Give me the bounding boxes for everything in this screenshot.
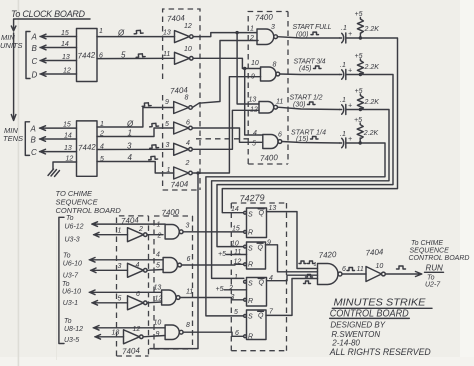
junction C2 R2 [359, 73, 362, 76]
svg-text:7400: 7400 [260, 153, 279, 163]
svg-text:+: + [348, 31, 352, 38]
wire U8c Q to 7420 in3 [267, 275, 318, 281]
inverter U5a [174, 102, 189, 114]
svg-text:6: 6 [342, 266, 346, 273]
svg-text:9: 9 [156, 331, 160, 338]
svg-text:1: 1 [118, 228, 122, 235]
svg-text:11: 11 [163, 51, 170, 58]
svg-text:U6-10: U6-10 [62, 289, 81, 296]
nand U3a [257, 29, 274, 45]
svg-text:RUN: RUN [426, 264, 444, 273]
wire out row1A [92, 222, 165, 227]
svg-text:74279: 74279 [239, 192, 265, 203]
svg-text:13: 13 [112, 330, 120, 337]
svg-text:S: S [248, 212, 253, 219]
svg-text:S: S [248, 281, 253, 288]
wire U7a out to latch1 R [183, 231, 244, 233]
wire U3d out to C4 [282, 142, 340, 144]
inverter U5d [174, 167, 189, 179]
svg-text:(30): (30) [293, 101, 305, 108]
svg-text:3: 3 [231, 294, 235, 301]
svg-text:4: 4 [128, 153, 133, 162]
decoder U4 7442 [77, 121, 98, 176]
inverter U2b [175, 52, 190, 64]
svg-text:START FULL: START FULL [293, 24, 332, 31]
inverter U5c [174, 143, 189, 155]
svg-text:U3-1: U3-1 [63, 300, 78, 307]
svg-text:7404: 7404 [122, 346, 141, 356]
svg-text:6: 6 [186, 120, 190, 127]
svg-text:ALL RIGHTS RESERVED: ALL RIGHTS RESERVED [329, 347, 431, 358]
svg-text:A: A [31, 33, 37, 42]
svg-text:14: 14 [61, 41, 69, 48]
svg-text:10: 10 [251, 60, 259, 67]
wire input C U4 [40, 149, 77, 154]
wire out row2A [89, 258, 163, 263]
inverter U10 [366, 267, 382, 282]
wire start-3/4 loop to latch S2 [217, 75, 393, 247]
wire U2b out to N2 pin10 [193, 58, 261, 68]
nand U7b [163, 258, 177, 273]
svg-text:5: 5 [165, 121, 169, 128]
svg-text:To: To [62, 281, 70, 288]
svg-text:R: R [248, 262, 253, 269]
wire units-0bar down to N3 pin13 [237, 33, 259, 104]
svg-text:13: 13 [249, 97, 257, 104]
wire input A U4 [40, 126, 77, 131]
svg-text:7420: 7420 [318, 250, 337, 260]
svg-text:2: 2 [228, 285, 233, 292]
svg-text:To: To [63, 253, 71, 260]
wire U7b out to latch2 R [182, 263, 244, 266]
svg-text:.1: .1 [341, 25, 347, 32]
wire U1 output 5 [97, 57, 175, 59]
wire U7c out to latch3 R [180, 298, 244, 300]
svg-text:CONTROL BOARD: CONTROL BOARD [409, 255, 470, 262]
wire tens-4bar down branch [150, 173, 198, 349]
svg-text:13: 13 [62, 54, 70, 61]
svg-text:10: 10 [184, 46, 192, 53]
svg-text:3: 3 [127, 142, 132, 151]
svg-text:S: S [248, 246, 253, 253]
svg-text:5: 5 [121, 51, 126, 60]
svg-text:7404: 7404 [167, 13, 186, 23]
svg-text:3: 3 [271, 24, 275, 31]
svg-text:START 1/2: START 1/2 [290, 94, 323, 101]
svg-text:13: 13 [64, 145, 72, 152]
svg-text:Q: Q [258, 245, 264, 252]
wire U3b out to C2 [280, 73, 340, 76]
latch U8b [247, 242, 266, 269]
wire down to MIN TENS [11, 33, 16, 121]
bracket minute units inputs [26, 32, 30, 79]
pulse mark [142, 103, 151, 107]
inverter U6d [124, 330, 140, 344]
svg-text:6: 6 [235, 330, 239, 337]
paper fold line [18, 0, 20, 366]
svg-text:7442: 7442 [78, 142, 97, 152]
junction C4 R4 [359, 141, 362, 144]
wire start-1/4 loop to latch S4 [206, 143, 385, 316]
wire tens-0bar to N1 pin2 [199, 41, 258, 104]
dashed wire segment [196, 138, 250, 140]
svg-text:14: 14 [231, 206, 239, 213]
svg-text:To CHIME: To CHIME [411, 240, 443, 247]
svg-text:7400: 7400 [255, 13, 274, 23]
wire U6a out to N5 pin2 [147, 234, 163, 236]
svg-text:6: 6 [278, 132, 282, 139]
wire U5c out (tens-3bar) to N3 pin12 [192, 110, 259, 149]
svg-text:To: To [64, 318, 72, 325]
svg-text:START 3/4: START 3/4 [294, 58, 326, 65]
svg-text:1: 1 [128, 129, 132, 138]
wire U5a out (tens-0bar) jog to vertical [192, 103, 199, 107]
svg-text:R: R [248, 298, 253, 305]
svg-text:2: 2 [249, 35, 254, 42]
wire out row1B [94, 232, 128, 237]
svg-text:15: 15 [61, 30, 69, 37]
svg-text:8: 8 [186, 322, 190, 329]
wire start-full loop to latch S1 [222, 38, 397, 213]
svg-text:15: 15 [232, 226, 240, 233]
svg-text:B: B [32, 44, 38, 53]
svg-text:2.2K: 2.2K [364, 99, 380, 106]
bracket minute tens inputs [25, 122, 29, 156]
junction units-5bar [243, 67, 246, 70]
svg-text:8: 8 [185, 95, 189, 102]
svg-text:2.2K: 2.2K [363, 130, 379, 137]
pulse mark [136, 54, 145, 58]
svg-text:5: 5 [156, 263, 160, 270]
svg-text:1: 1 [314, 262, 317, 268]
ground [48, 169, 60, 177]
svg-text:Ø: Ø [126, 120, 134, 129]
svg-text:U8-12: U8-12 [64, 326, 83, 333]
wire arrow to MIN UNITS [11, 26, 16, 31]
junction units-0bar [235, 31, 238, 34]
pulse mark [149, 123, 158, 127]
wire U1 output 0 [97, 36, 175, 38]
wire U3a out to C1 [278, 37, 340, 38]
svg-text:4: 4 [186, 140, 190, 147]
hex inverter U6 7404 dashed box (lower) [117, 216, 149, 356]
svg-text:1: 1 [234, 274, 238, 281]
pulse mark run [397, 266, 406, 269]
nand U3d [263, 135, 278, 149]
junction tens-4bar branch [196, 171, 199, 174]
pulse mark [148, 156, 157, 160]
svg-text:D: D [32, 71, 38, 80]
wire U8d Q to 7420 in4 [266, 279, 318, 316]
wire U6d out to N8 pin9 [143, 336, 165, 337]
wire U6c out to N7 pin12 [147, 301, 162, 304]
svg-text:9: 9 [165, 99, 169, 106]
svg-text:Ø: Ø [117, 29, 125, 38]
hex inverter U5 7404 dashed box (middle) [163, 83, 200, 190]
svg-text:C: C [31, 148, 37, 157]
junction C3 R3 [359, 108, 362, 111]
inverter U6a [128, 228, 144, 242]
svg-text:.1: .1 [340, 62, 346, 69]
svg-text:11: 11 [357, 266, 364, 273]
wire input D U1 [40, 72, 77, 77]
svg-text:5: 5 [252, 141, 256, 148]
svg-text:Q: Q [259, 210, 265, 217]
latch U8d [247, 310, 267, 340]
wire input A U1 [40, 34, 77, 39]
svg-text:C: C [32, 57, 38, 66]
svg-text:Q: Q [259, 280, 265, 287]
wire underline from TO CLOCK BOARD [14, 19, 90, 27]
pulse mark U9 out [347, 268, 355, 271]
svg-text:6: 6 [187, 256, 191, 263]
wire U4 output 1 to U5b [97, 128, 174, 137]
svg-text:4: 4 [253, 130, 257, 137]
svg-text:7400: 7400 [161, 208, 180, 218]
svg-text:A: A [30, 125, 36, 134]
svg-text:3: 3 [118, 263, 122, 270]
svg-text:CONTROL BOARD: CONTROL BOARD [56, 206, 122, 215]
decoder U1 7442 [77, 29, 98, 82]
svg-text:12: 12 [66, 156, 74, 163]
svg-text:5: 5 [234, 309, 238, 316]
svg-text:2.2K: 2.2K [364, 64, 380, 71]
nand U9 7420 [318, 264, 339, 285]
svg-text:12: 12 [63, 68, 71, 75]
svg-text:To: To [427, 275, 435, 282]
svg-text:4: 4 [156, 252, 160, 259]
svg-text:U2-7: U2-7 [425, 282, 441, 289]
svg-text:8: 8 [273, 62, 277, 69]
svg-text:2: 2 [157, 233, 162, 240]
svg-text:7404: 7404 [121, 215, 140, 225]
svg-text:+5: +5 [355, 11, 363, 18]
svg-text:3: 3 [186, 223, 190, 230]
junction C1 R1 [359, 36, 362, 39]
svg-text:R: R [248, 334, 253, 341]
svg-text:7442: 7442 [77, 50, 96, 60]
svg-text:+5: +5 [216, 286, 224, 293]
svg-text:2: 2 [138, 226, 143, 233]
svg-text:To: To [66, 215, 74, 222]
wire U8a Q to 7420 in1 [267, 212, 318, 269]
svg-text:+: + [348, 103, 352, 110]
svg-text:U3-5: U3-5 [64, 337, 79, 344]
svg-text:11: 11 [186, 289, 193, 296]
wire units-5bar down to N4 pin4 [245, 69, 263, 136]
hex inverter U2 7404 dashed box (upper) [163, 9, 200, 79]
svg-text:.1: .1 [340, 131, 346, 138]
wire pin 12 to ground [53, 162, 77, 169]
nand U7d [165, 325, 179, 340]
svg-text:S: S [248, 314, 253, 321]
svg-text:1: 1 [99, 28, 103, 35]
wire U9 out to U10 [342, 273, 366, 275]
wire U4 output 3 to U5c [97, 148, 174, 150]
svg-text:UNITS: UNITS [0, 41, 23, 50]
svg-text:U3-3: U3-3 [65, 237, 80, 244]
wire U7d out to latch4 R [183, 332, 244, 336]
wire U4 output 0 to U5a [97, 108, 174, 128]
svg-text:13: 13 [163, 30, 171, 37]
wire out row3A [89, 290, 161, 295]
svg-text:1: 1 [167, 167, 171, 174]
svg-text:+5: +5 [355, 88, 363, 95]
svg-text:7404: 7404 [365, 247, 384, 257]
svg-text:+5: +5 [355, 53, 363, 60]
nand U3c [259, 102, 274, 114]
inverter U2a [175, 31, 190, 43]
wire input B U1 [40, 45, 77, 50]
svg-text:7404: 7404 [170, 179, 189, 189]
wire start-1/2 loop to latch S3 [212, 110, 389, 279]
pulse marks near 7420 inputs [299, 261, 315, 264]
svg-text:+: + [348, 136, 352, 143]
svg-text:DESIGNED BY: DESIGNED BY [330, 321, 385, 330]
nand U7c [162, 290, 176, 305]
svg-text:B: B [31, 136, 37, 145]
wire input C U1 [40, 58, 77, 63]
svg-text:2.2K: 2.2K [364, 26, 380, 33]
svg-text:4: 4 [136, 262, 140, 269]
quad latch U8 74279 dashed box [231, 203, 286, 351]
wire out row4B [95, 335, 124, 340]
svg-text:+5: +5 [218, 251, 226, 258]
inverter U6c [128, 296, 144, 310]
svg-text:To CLOCK BOARD: To CLOCK BOARD [11, 9, 86, 19]
wire U10 out arrow RUN [385, 272, 422, 277]
svg-text:13: 13 [154, 285, 162, 292]
pulse mark [149, 145, 158, 149]
svg-text:2: 2 [185, 160, 190, 167]
svg-text:5: 5 [118, 296, 122, 303]
svg-text:10: 10 [376, 263, 384, 270]
inverter U6b [128, 263, 144, 277]
svg-text:U3-7: U3-7 [63, 273, 79, 280]
svg-text:U6-12: U6-12 [65, 224, 84, 231]
nand U3b [261, 67, 277, 81]
wire U6b out to N6 pin5 [147, 269, 163, 272]
nand U7a [165, 225, 179, 240]
svg-text:TENS: TENS [3, 134, 23, 143]
latch U8c [247, 278, 267, 307]
wire out row2B [91, 268, 128, 273]
svg-text:12: 12 [184, 23, 192, 30]
svg-text:11: 11 [276, 99, 283, 106]
svg-text:Q: Q [258, 313, 264, 320]
svg-text:12: 12 [234, 259, 242, 266]
svg-text:1: 1 [250, 26, 254, 33]
bracket chime outputs [59, 217, 64, 343]
wire input B U4 [40, 137, 77, 142]
wire U5d out (tens-4bar) to N2 pin9 [192, 77, 260, 173]
svg-text:.1: .1 [340, 97, 346, 104]
wire U5b out (tens-1bar) to N4 pin5 [192, 128, 262, 142]
quad NAND U7 7400 dashed box (lower) [154, 216, 193, 349]
svg-text:1: 1 [157, 222, 161, 229]
quad NAND U3 7400 dashed box (upper) [248, 12, 288, 165]
svg-text:15: 15 [63, 122, 71, 129]
inverter U5b [174, 122, 189, 134]
svg-text:(45): (45) [299, 65, 311, 72]
wire out row4A [93, 326, 165, 331]
svg-text:12: 12 [133, 326, 141, 333]
svg-text:R: R [248, 230, 253, 237]
svg-text:U6-10: U6-10 [63, 261, 82, 268]
svg-text:3: 3 [166, 142, 170, 149]
svg-text:14: 14 [64, 133, 72, 140]
wire U2a out to N1 pin1 [193, 33, 257, 37]
svg-text:SEQUENCE: SEQUENCE [410, 248, 450, 255]
svg-text:10: 10 [154, 320, 162, 327]
wire U4 output 4 to U5d [97, 162, 174, 174]
wire U8b Q to 7420 in2 [266, 245, 318, 272]
wire out row3B [92, 301, 128, 306]
svg-text:11: 11 [234, 249, 241, 256]
svg-text:10: 10 [231, 241, 239, 248]
svg-text:6: 6 [136, 291, 140, 298]
svg-text:12: 12 [155, 296, 163, 303]
pulse mark [134, 30, 143, 34]
wire U3c out to C3 [278, 107, 340, 109]
svg-text:+: + [348, 68, 352, 75]
latch U8a [247, 208, 267, 238]
